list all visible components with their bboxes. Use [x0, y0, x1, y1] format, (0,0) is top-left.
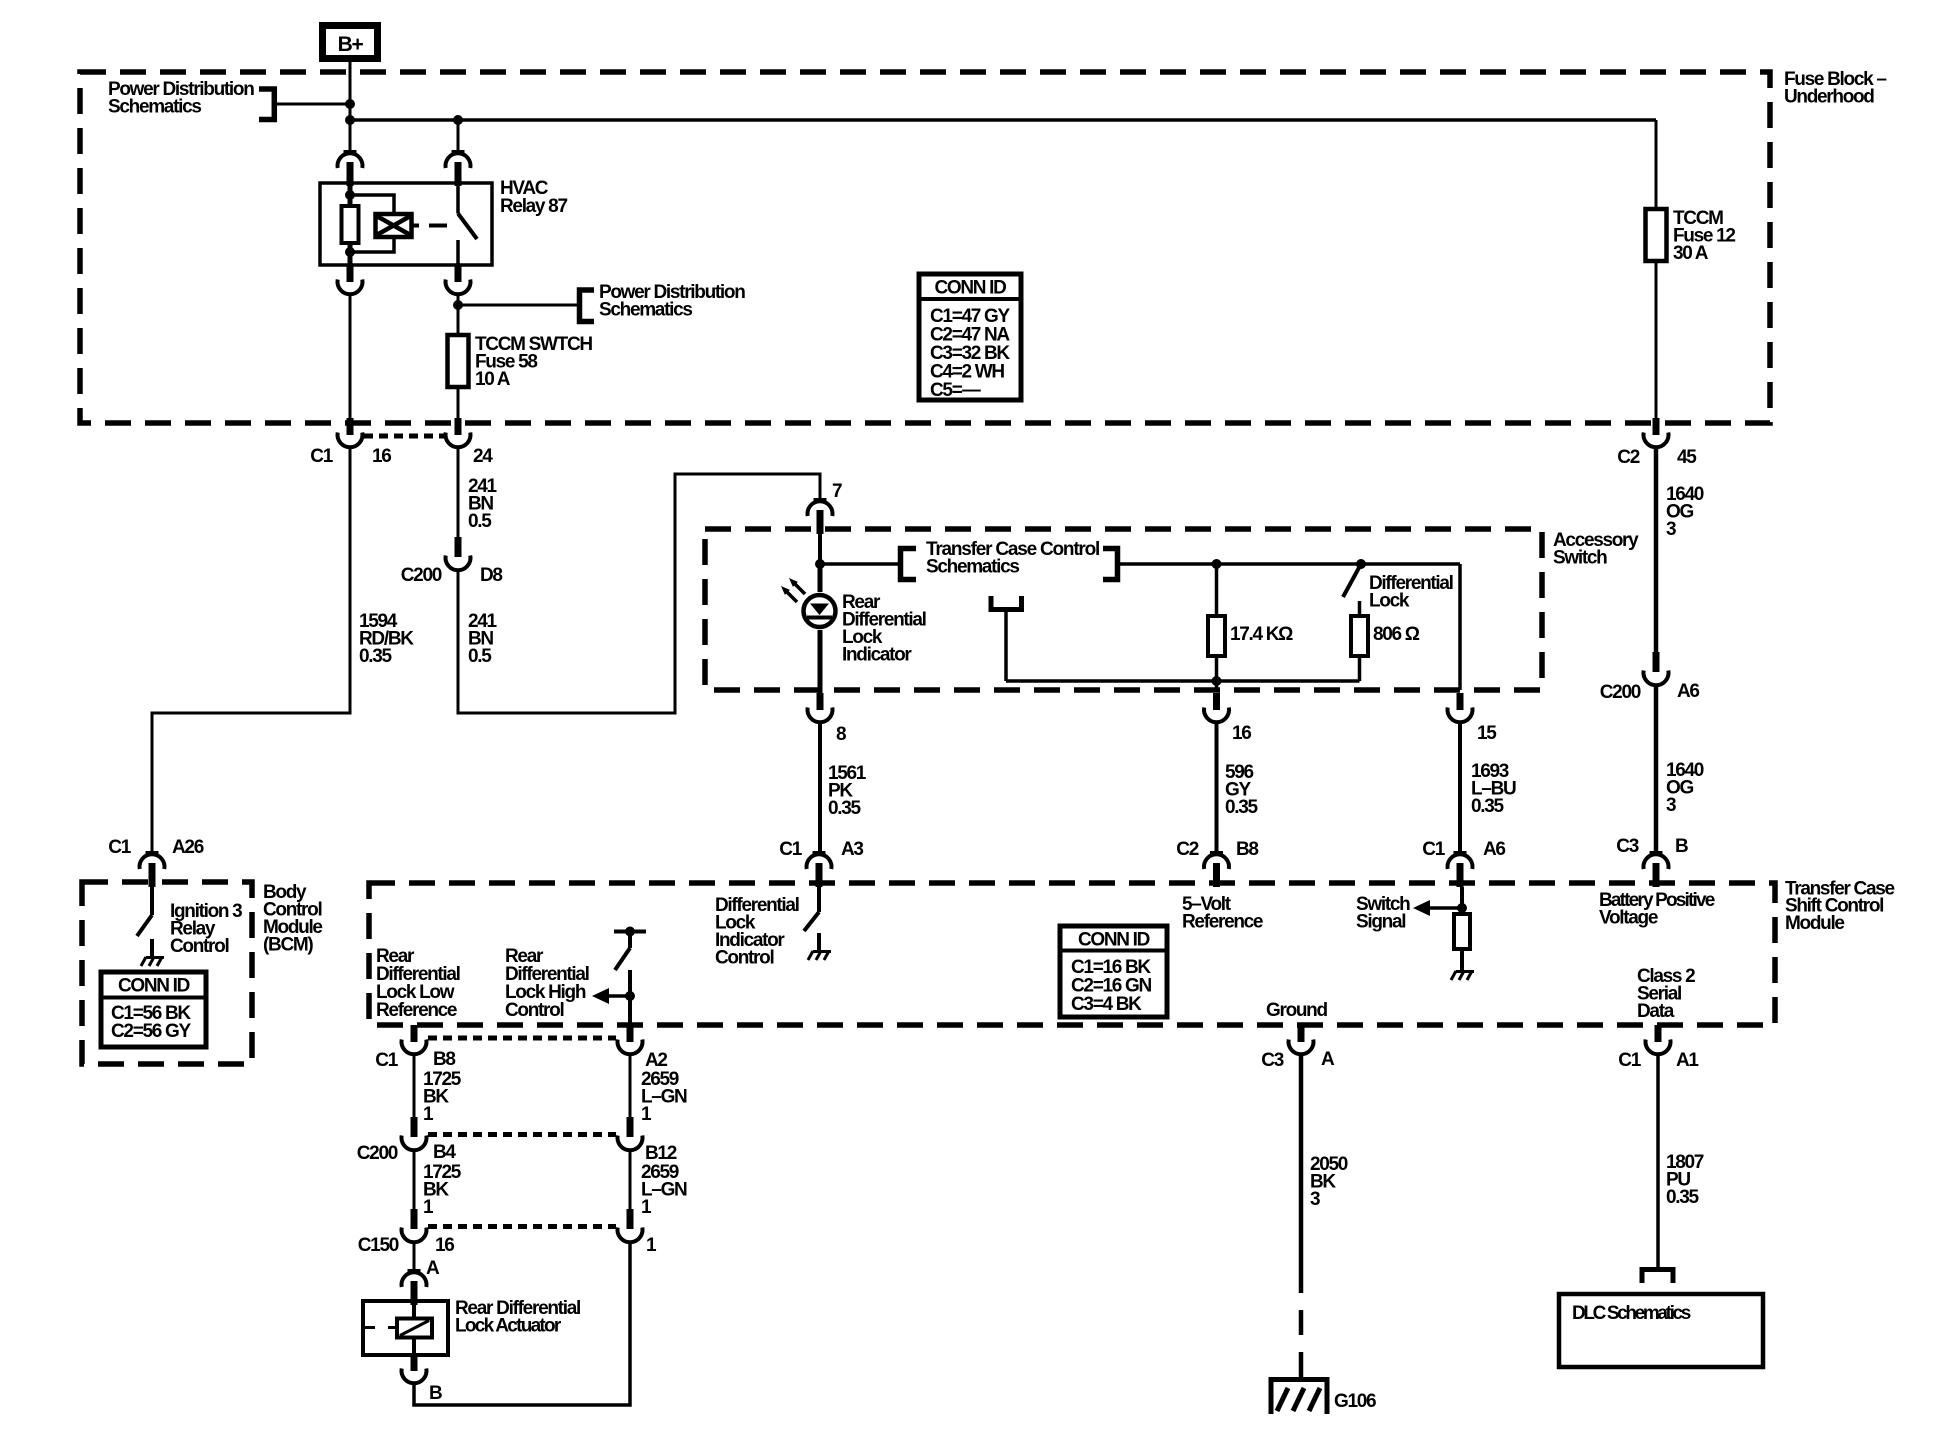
connector C150 1 — [618, 1209, 643, 1242]
resistor 17.4 K ohm — [1208, 616, 1225, 656]
wire 1725 BK lower — [413, 1151, 416, 1210]
svg-text:(BCM): (BCM) — [263, 935, 313, 956]
connector C200 B4 — [402, 1117, 427, 1150]
fuse TCCM Fuse 12 — [1646, 209, 1667, 261]
svg-text:3: 3 — [1666, 795, 1676, 816]
svg-text:A3: A3 — [841, 839, 863, 860]
svg-text:C1: C1 — [1422, 839, 1445, 860]
svg-text:A: A — [426, 1258, 440, 1279]
actuator solenoid — [364, 1303, 432, 1354]
svg-text:Voltage: Voltage — [1599, 908, 1658, 929]
node coil bottom — [345, 247, 355, 257]
svg-text:Control: Control — [715, 948, 773, 969]
svg-text:C2: C2 — [1176, 839, 1198, 860]
wire 1561 PK run — [818, 723, 822, 854]
accessory switch dashed box — [705, 529, 1542, 690]
svg-text:10 A: 10 A — [475, 369, 511, 390]
svg-text:DLC Schematics: DLC Schematics — [1572, 1303, 1691, 1324]
svg-text:Control: Control — [170, 936, 228, 957]
wire coil bottom — [348, 243, 353, 266]
wire 2659 L-GN lower — [629, 1151, 632, 1210]
relay actuation dashed link — [412, 224, 420, 228]
wire coil loop top — [350, 195, 394, 214]
resistor relay coil suppression — [342, 206, 359, 243]
wire 1640 OG lower run — [1654, 685, 1659, 853]
svg-text:Reference: Reference — [1182, 912, 1263, 933]
svg-text:Reference: Reference — [376, 1000, 457, 1021]
svg-text:0.35: 0.35 — [1225, 797, 1259, 818]
svg-text:C1: C1 — [779, 839, 802, 860]
svg-text:B12: B12 — [645, 1143, 677, 1164]
svg-text:B: B — [1675, 836, 1688, 857]
wire bus down right side — [1655, 120, 1658, 209]
node coil top — [345, 190, 355, 200]
svg-text:15: 15 — [1477, 723, 1497, 744]
wire actuator B loop — [414, 1243, 630, 1406]
connector actuator pin B — [402, 1354, 427, 1383]
svg-text:B4: B4 — [433, 1142, 456, 1163]
svg-text:Relay 87: Relay 87 — [500, 196, 567, 217]
wire 1640 OG upper run — [1654, 448, 1659, 653]
stub bracket return symbol — [991, 596, 1022, 610]
svg-text:3: 3 — [1310, 1189, 1320, 1210]
wire resistor to ground — [1460, 949, 1464, 970]
svg-text:C3: C3 — [1616, 836, 1638, 857]
wire bracket to node — [276, 103, 350, 106]
body control module dashed box — [82, 882, 252, 1064]
connector pin 8 accessory exit — [808, 693, 833, 722]
svg-text:0.5: 0.5 — [468, 646, 492, 667]
connector C1 A1 module exit — [1646, 1025, 1671, 1054]
svg-text:Schematics: Schematics — [108, 97, 201, 118]
wire fuse 12 to exit — [1655, 261, 1658, 418]
svg-text:0.5: 0.5 — [468, 511, 492, 532]
wire 17.4k bottom — [1215, 656, 1219, 690]
svg-text:A26: A26 — [172, 837, 204, 858]
rear differential lock actuator box — [363, 1301, 448, 1355]
B+ power symbol — [323, 26, 378, 59]
svg-text:C200: C200 — [401, 565, 442, 586]
wire 806 bottom — [1358, 656, 1362, 681]
connector relay bottom pin left — [338, 265, 363, 294]
svg-text:Indicator: Indicator — [842, 645, 912, 666]
svg-text:CONN ID: CONN ID — [934, 278, 1006, 299]
wire A6 into module — [1460, 887, 1464, 914]
bracket to Power Distribution Schematics (mid) — [580, 290, 595, 322]
connector C200 A6 — [1644, 652, 1669, 685]
connector pin 15 accessory exit — [1448, 693, 1473, 722]
fuse TCCM SWTCH Fuse 58 — [448, 335, 469, 387]
node junction bus left — [345, 115, 355, 125]
relay switch upper contact — [456, 184, 460, 214]
svg-text:D8: D8 — [480, 565, 502, 586]
wire junction to bracket — [820, 562, 899, 566]
LED emission arrows — [781, 578, 805, 602]
svg-text:16: 16 — [372, 446, 391, 467]
svg-text:0.35: 0.35 — [1666, 1187, 1700, 1208]
svg-text:A6: A6 — [1483, 839, 1505, 860]
switch blade differential lock — [1343, 564, 1361, 597]
svg-text:0.35: 0.35 — [828, 798, 862, 819]
svg-text:C2: C2 — [1617, 447, 1639, 468]
connector relay top pin left — [338, 150, 363, 186]
wire fuse 58 to exit — [457, 387, 460, 418]
wire C150 to actuator — [413, 1243, 416, 1270]
svg-text:G106: G106 — [1334, 1391, 1376, 1412]
bracket to Power Distribution Schematics (top left) — [259, 89, 274, 120]
svg-text:C1: C1 — [108, 837, 131, 858]
svg-text:24: 24 — [473, 446, 493, 467]
svg-text:A2: A2 — [645, 1050, 667, 1071]
svg-text:Control: Control — [505, 1000, 563, 1021]
node LED top junction — [815, 559, 825, 569]
connector C3 A module exit — [1289, 1025, 1314, 1054]
wire relay coil feed — [348, 184, 353, 206]
wire pin 7 into box — [818, 533, 822, 564]
connector C150 16 — [402, 1209, 427, 1242]
wire 2050 BK solid — [1299, 1055, 1304, 1269]
svg-text:7: 7 — [832, 481, 842, 502]
wire 1594 RD/BK run — [152, 448, 350, 854]
wire bus to relay pin — [457, 120, 460, 152]
resistor switch signal pull — [1454, 914, 1470, 949]
svg-text:C200: C200 — [357, 1143, 398, 1164]
svg-text:30 A: 30 A — [1673, 243, 1709, 264]
svg-text:Lock: Lock — [1369, 591, 1410, 612]
connector relay top pin right — [446, 150, 471, 186]
wire 1693 L-BU run — [1458, 723, 1462, 854]
node switch signal — [1457, 903, 1467, 913]
node junction at B+ feed — [345, 99, 355, 109]
ground G106 — [1271, 1380, 1327, 1415]
arrow switch signal — [1413, 900, 1462, 916]
svg-text:B8: B8 — [433, 1049, 455, 1070]
wire switch signal leg — [1458, 564, 1462, 690]
wire main bus to TCCM fuse — [350, 118, 1656, 122]
wire 1725 BK upper — [413, 1055, 416, 1118]
CONN ID table BCM — [101, 972, 206, 1047]
wire down to bus — [349, 104, 352, 152]
wire relay to fuse 58 — [457, 295, 460, 336]
wire accessory bottom bus — [1006, 679, 1360, 683]
svg-text:3: 3 — [1666, 519, 1676, 540]
arrow lock high control — [592, 988, 630, 1004]
wire 1807 PU run — [1656, 1055, 1660, 1268]
svg-text:Data: Data — [1637, 1001, 1675, 1022]
dashed tie line C1 row bottom — [428, 1036, 616, 1041]
svg-text:Lock Actuator: Lock Actuator — [455, 1316, 562, 1337]
wire 2659 L-GN upper — [629, 1055, 632, 1118]
connector pin 7 accessory switch — [808, 498, 833, 534]
svg-text:C3=4 BK: C3=4 BK — [1071, 994, 1142, 1015]
svg-text:C200: C200 — [1600, 682, 1641, 703]
connector pin 24 fuse block exit — [446, 418, 471, 447]
node to power distribution tap — [453, 300, 463, 310]
svg-text:B8: B8 — [1236, 839, 1258, 860]
connector C1 A3 module entry — [807, 851, 832, 887]
svg-text:45: 45 — [1677, 447, 1697, 468]
node high control arrow — [625, 991, 635, 1001]
svg-text:C1: C1 — [310, 446, 333, 467]
svg-text:A: A — [1321, 1049, 1335, 1070]
svg-text:A6: A6 — [1677, 681, 1699, 702]
CONN ID table module — [1060, 926, 1167, 1017]
DLC schematics box — [1559, 1294, 1763, 1367]
switch differential lock indicator driver — [804, 887, 819, 950]
svg-text:C5=––: C5=–– — [930, 380, 981, 401]
wire accessory top bus — [1120, 562, 1460, 566]
connector C2 pin 45 fuse block exit — [1644, 418, 1669, 447]
svg-text:A1: A1 — [1676, 1050, 1699, 1071]
node driver bar — [625, 927, 635, 937]
svg-text:C2=56 GY: C2=56 GY — [111, 1021, 191, 1042]
resistor 806 ohm — [1351, 616, 1368, 656]
wire coil loop bottom — [350, 237, 394, 252]
svg-text:C1: C1 — [375, 1050, 398, 1071]
wire relay to C1-16 exit — [349, 295, 352, 419]
CONN ID table fuse block — [919, 274, 1021, 401]
svg-text:Ground: Ground — [1266, 1000, 1327, 1021]
connector A2 module exit — [618, 1025, 643, 1054]
node bottom bus — [1212, 676, 1222, 686]
svg-text:Schematics: Schematics — [599, 300, 692, 321]
wire switch to 806 resistor — [1358, 601, 1362, 616]
svg-text:Signal: Signal — [1356, 912, 1405, 933]
svg-text:Switch: Switch — [1553, 548, 1607, 569]
svg-text:16: 16 — [435, 1235, 454, 1256]
svg-text:C3: C3 — [1261, 1050, 1283, 1071]
connector C200 D8 — [446, 537, 471, 570]
svg-text:806 Ω: 806 Ω — [1373, 624, 1420, 645]
relay HVAC Relay 87 box — [320, 183, 492, 265]
svg-text:B: B — [429, 1383, 442, 1404]
wire return stub down — [1004, 612, 1008, 681]
connector C200 B12 — [618, 1117, 643, 1150]
relay coil winding box — [376, 214, 412, 237]
wire 2050 BK dashed to G106 — [1299, 1268, 1304, 1379]
svg-text:17.4 KΩ: 17.4 KΩ — [1230, 624, 1293, 645]
node junction bus at relay 87 — [453, 115, 463, 125]
connector C2 B8 module entry — [1204, 851, 1229, 887]
svg-text:B+: B+ — [338, 33, 364, 56]
ground switch signal — [1451, 971, 1474, 980]
svg-text:Underhood: Underhood — [1784, 87, 1874, 108]
relay switch blade — [458, 214, 477, 240]
svg-text:C150: C150 — [358, 1235, 399, 1256]
ground BCM internal — [141, 957, 164, 966]
wire 241 BN to accessory switch — [458, 474, 820, 713]
wire 596 GY run — [1215, 723, 1219, 854]
svg-text:8: 8 — [836, 724, 846, 745]
ground indicator driver — [808, 951, 831, 960]
svg-text:CONN ID: CONN ID — [1078, 930, 1150, 951]
dashed tie line C150 row — [428, 1224, 616, 1229]
wire B+ down to junction — [349, 59, 352, 104]
connector C3 B module entry — [1644, 851, 1669, 887]
svg-text:16: 16 — [1232, 723, 1251, 744]
node 17.4k top — [1212, 559, 1222, 569]
dashed tie line connector C1 row — [364, 434, 446, 439]
svg-text:0.35: 0.35 — [359, 646, 393, 667]
bracket from Transfer Case Control Schematics (return) — [1103, 549, 1118, 580]
svg-text:CONN ID: CONN ID — [118, 976, 190, 997]
relay switch lower contact — [456, 240, 460, 265]
transfer case shift control module dashed box — [369, 883, 1775, 1025]
bracket to Transfer Case Control Schematics — [901, 549, 917, 580]
connector C1 pin 16 fuse block exit — [338, 418, 363, 447]
bracket to DLC schematics — [1642, 1270, 1673, 1284]
fuse block underhood dashed box — [80, 72, 1770, 423]
switch rear diff lock high driver — [614, 932, 646, 1026]
wire 24 to C200 — [457, 448, 460, 538]
connector pin 16 accessory exit — [1204, 693, 1229, 722]
svg-text:Schematics: Schematics — [926, 557, 1019, 578]
dashed tie line C200 row — [428, 1132, 616, 1137]
connector C1 A6 module entry — [1448, 851, 1473, 887]
connector C1 B8 module exit — [402, 1025, 427, 1054]
switch ignition 3 relay control — [137, 887, 152, 956]
node switch pivot — [1356, 559, 1366, 569]
svg-text:C1: C1 — [1618, 1050, 1641, 1071]
svg-text:Module: Module — [1785, 913, 1844, 934]
svg-text:0.35: 0.35 — [1471, 796, 1505, 817]
connector actuator pin A — [402, 1269, 427, 1305]
connector C1 A26 BCM entry — [140, 851, 165, 887]
wire 17.4k leg — [1215, 564, 1219, 616]
connector relay bottom pin right — [446, 265, 471, 294]
LED rear differential lock indicator — [804, 564, 836, 694]
wire tap to bracket — [458, 304, 578, 307]
